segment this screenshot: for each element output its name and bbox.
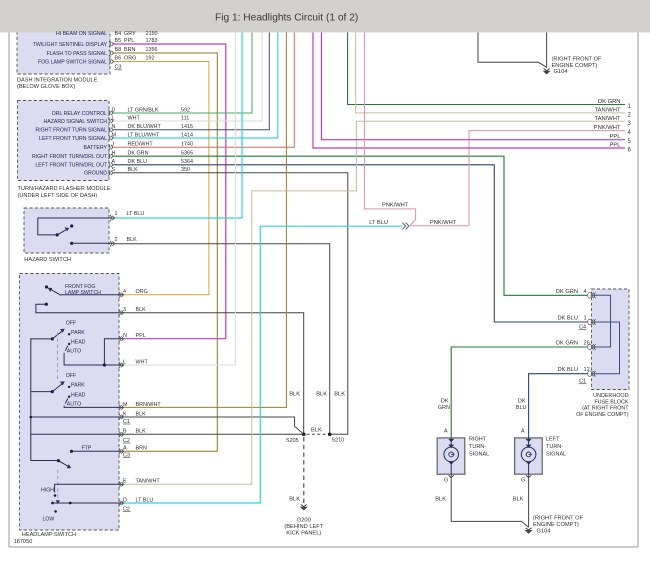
- svg-text:BLK: BLK: [136, 429, 147, 435]
- svg-text:5365: 5365: [181, 151, 193, 157]
- svg-text:DK BLU: DK BLU: [557, 367, 578, 373]
- svg-text:LOW: LOW: [43, 517, 55, 523]
- svg-text:(BELOW GLOVE BOX): (BELOW GLOVE BOX): [17, 84, 75, 90]
- svg-text:HAZARD SIGNAL SWITCH: HAZARD SIGNAL SWITCH: [43, 119, 107, 125]
- svg-text:PNK/WHT: PNK/WHT: [594, 125, 621, 131]
- svg-text:HAZARD SWITCH: HAZARD SWITCH: [24, 257, 71, 263]
- svg-text:ORG: ORG: [136, 289, 148, 295]
- svg-text:G200: G200: [297, 518, 311, 524]
- svg-text:TURN-: TURN-: [469, 444, 486, 450]
- svg-text:BRN: BRN: [124, 47, 135, 53]
- svg-text:1415: 1415: [181, 124, 193, 130]
- svg-text:GRN: GRN: [438, 405, 450, 411]
- svg-text:DK GRN: DK GRN: [556, 289, 578, 295]
- svg-text:G104: G104: [537, 529, 551, 535]
- svg-text:BLK: BLK: [316, 392, 327, 398]
- svg-text:PPL: PPL: [610, 143, 622, 149]
- svg-text:PNK/WHT: PNK/WHT: [382, 203, 409, 209]
- svg-text:LEFT FRONT TURN/DRL OUT: LEFT FRONT TURN/DRL OUT: [35, 163, 107, 169]
- svg-text:PARK: PARK: [71, 330, 85, 336]
- svg-text:DASH INTEGRATION MODULE: DASH INTEGRATION MODULE: [17, 77, 98, 83]
- svg-text:1356: 1356: [146, 47, 158, 53]
- svg-text:KICK PANEL): KICK PANEL): [286, 531, 321, 537]
- svg-text:PPL: PPL: [610, 134, 622, 140]
- svg-text:FOG LAMP SWITCH SIGNAL: FOG LAMP SWITCH SIGNAL: [38, 60, 107, 66]
- svg-text:B5: B5: [115, 38, 122, 44]
- svg-text:BLK: BLK: [311, 428, 322, 434]
- svg-text:(UNDER LEFT SIDE OF DASH): (UNDER LEFT SIDE OF DASH): [18, 193, 98, 199]
- svg-text:RIGHT: RIGHT: [469, 437, 487, 443]
- svg-text:1783: 1783: [146, 38, 158, 44]
- svg-text:B4: B4: [115, 31, 122, 37]
- svg-text:(RIGHT FRONT OF: (RIGHT FRONT OF: [533, 516, 584, 522]
- svg-text:BLK: BLK: [289, 497, 300, 503]
- svg-text:S205: S205: [286, 438, 299, 444]
- svg-text:2: 2: [115, 237, 118, 243]
- svg-text:BLK: BLK: [127, 237, 138, 243]
- svg-text:SIGNAL: SIGNAL: [546, 452, 566, 458]
- svg-text:DK GRN: DK GRN: [128, 151, 149, 157]
- svg-text:FLASH TO PASS SIGNAL: FLASH TO PASS SIGNAL: [46, 51, 107, 57]
- svg-text:BLK: BLK: [128, 167, 139, 173]
- svg-text:HEADLAMP SWITCH: HEADLAMP SWITCH: [22, 532, 76, 538]
- svg-text:B8: B8: [115, 47, 122, 53]
- svg-text:5364: 5364: [181, 159, 193, 165]
- svg-text:592: 592: [181, 107, 190, 113]
- svg-text:LAMP SWITCH: LAMP SWITCH: [65, 290, 101, 296]
- svg-text:AUTO: AUTO: [67, 401, 81, 407]
- svg-text:BLK: BLK: [435, 497, 446, 503]
- svg-text:RIGHT FRONT TURN/DRL OUT: RIGHT FRONT TURN/DRL OUT: [32, 154, 108, 160]
- svg-text:4: 4: [584, 289, 587, 295]
- svg-text:TAN/WHT: TAN/WHT: [595, 107, 621, 113]
- svg-text:(RIGHT FRONT OF: (RIGHT FRONT OF: [552, 57, 603, 63]
- svg-text:HEAD: HEAD: [71, 340, 86, 346]
- svg-text:RED/WHT: RED/WHT: [128, 142, 154, 148]
- svg-text:DK: DK: [518, 399, 526, 405]
- svg-text:2150: 2150: [146, 31, 158, 37]
- svg-text:DK BLU/WHT: DK BLU/WHT: [128, 124, 162, 130]
- svg-text:TWILIGHT SENTINEL DISPLAY: TWILIGHT SENTINEL DISPLAY: [33, 42, 108, 48]
- svg-text:Fig 1: Headlights Circuit (1 o: Fig 1: Headlights Circuit (1 of 2): [215, 13, 358, 24]
- svg-text:187050: 187050: [14, 539, 33, 545]
- svg-text:A: A: [521, 429, 525, 435]
- svg-text:UNDERHOOD: UNDERHOOD: [593, 393, 628, 399]
- svg-text:DK GRN: DK GRN: [556, 341, 578, 347]
- svg-text:TURN-: TURN-: [546, 444, 563, 450]
- svg-text:BLK: BLK: [136, 411, 147, 417]
- svg-text:1: 1: [115, 211, 118, 217]
- svg-text:BLU: BLU: [516, 405, 527, 411]
- svg-text:350: 350: [181, 167, 190, 173]
- svg-text:BRN/WHT: BRN/WHT: [136, 402, 162, 408]
- svg-text:LT GRN/BLK: LT GRN/BLK: [128, 107, 159, 113]
- svg-text:GROUND: GROUND: [84, 171, 107, 177]
- svg-text:OFF: OFF: [66, 373, 76, 379]
- svg-text:OF ENGINE COMPT): OF ENGINE COMPT): [576, 412, 629, 418]
- svg-text:DRL RELAY CONTROL: DRL RELAY CONTROL: [52, 111, 107, 117]
- svg-text:192: 192: [146, 56, 155, 62]
- svg-text:FUSE BLOCK: FUSE BLOCK: [594, 399, 629, 405]
- svg-text:LT BLU: LT BLU: [127, 211, 145, 217]
- svg-text:ORG: ORG: [124, 56, 136, 62]
- svg-text:PPL: PPL: [124, 38, 134, 44]
- svg-text:FTP: FTP: [82, 445, 92, 451]
- svg-text:B6: B6: [115, 56, 122, 62]
- svg-text:AUTO: AUTO: [67, 349, 81, 355]
- svg-text:WHT: WHT: [128, 115, 141, 121]
- svg-text:GRY: GRY: [124, 31, 136, 37]
- svg-text:1: 1: [584, 316, 587, 322]
- svg-text:G104: G104: [554, 69, 568, 75]
- svg-text:1740: 1740: [181, 142, 193, 148]
- svg-text:BATTERY: BATTERY: [84, 145, 108, 151]
- svg-text:(BEHIND LEFT: (BEHIND LEFT: [284, 524, 323, 530]
- svg-text:OFF: OFF: [66, 320, 76, 326]
- svg-text:TURN/HAZARD FLASHER MODULE: TURN/HAZARD FLASHER MODULE: [18, 186, 111, 192]
- svg-text:HIGH: HIGH: [41, 488, 54, 494]
- svg-text:ENGINE COMPT): ENGINE COMPT): [533, 522, 579, 528]
- svg-text:PPL: PPL: [136, 333, 146, 339]
- svg-text:BLK: BLK: [513, 497, 524, 503]
- svg-text:PARK: PARK: [71, 383, 85, 389]
- svg-text:WHT: WHT: [136, 359, 149, 365]
- svg-text:HEAD: HEAD: [71, 392, 86, 398]
- svg-text:G: G: [444, 478, 448, 484]
- svg-text:1414: 1414: [181, 132, 193, 138]
- svg-text:DK GRN: DK GRN: [598, 99, 621, 105]
- svg-text:LT BLU: LT BLU: [369, 220, 388, 226]
- svg-text:TAN/WHT: TAN/WHT: [595, 116, 621, 122]
- svg-text:BRN: BRN: [136, 446, 147, 452]
- svg-text:HI BEAM ON SIGNAL: HI BEAM ON SIGNAL: [56, 31, 107, 37]
- svg-text:RIGHT FRONT TURN SIGNAL: RIGHT FRONT TURN SIGNAL: [36, 128, 108, 134]
- svg-text:S210: S210: [332, 438, 345, 444]
- svg-text:111: 111: [181, 115, 189, 121]
- svg-text:BLK: BLK: [289, 392, 300, 398]
- svg-text:A: A: [444, 429, 448, 435]
- svg-text:BLK: BLK: [136, 307, 147, 313]
- svg-text:LEFT FRONT TURN SIGNAL: LEFT FRONT TURN SIGNAL: [39, 136, 107, 142]
- svg-text:G: G: [521, 478, 525, 484]
- svg-text:LEFT: LEFT: [546, 437, 560, 443]
- svg-text:SIGNAL: SIGNAL: [469, 452, 489, 458]
- svg-text:TAN/WHT: TAN/WHT: [136, 479, 161, 485]
- svg-text:LT BLU: LT BLU: [136, 497, 154, 503]
- svg-text:LT BLU/WHT: LT BLU/WHT: [128, 132, 160, 138]
- svg-text:(AT RIGHT FRONT: (AT RIGHT FRONT: [582, 406, 629, 412]
- svg-text:BLK: BLK: [334, 392, 345, 398]
- svg-text:PNK/WHT: PNK/WHT: [430, 220, 457, 226]
- svg-text:DK: DK: [441, 399, 449, 405]
- svg-text:DK BLU: DK BLU: [128, 159, 148, 165]
- svg-text:DK BLU: DK BLU: [557, 316, 578, 322]
